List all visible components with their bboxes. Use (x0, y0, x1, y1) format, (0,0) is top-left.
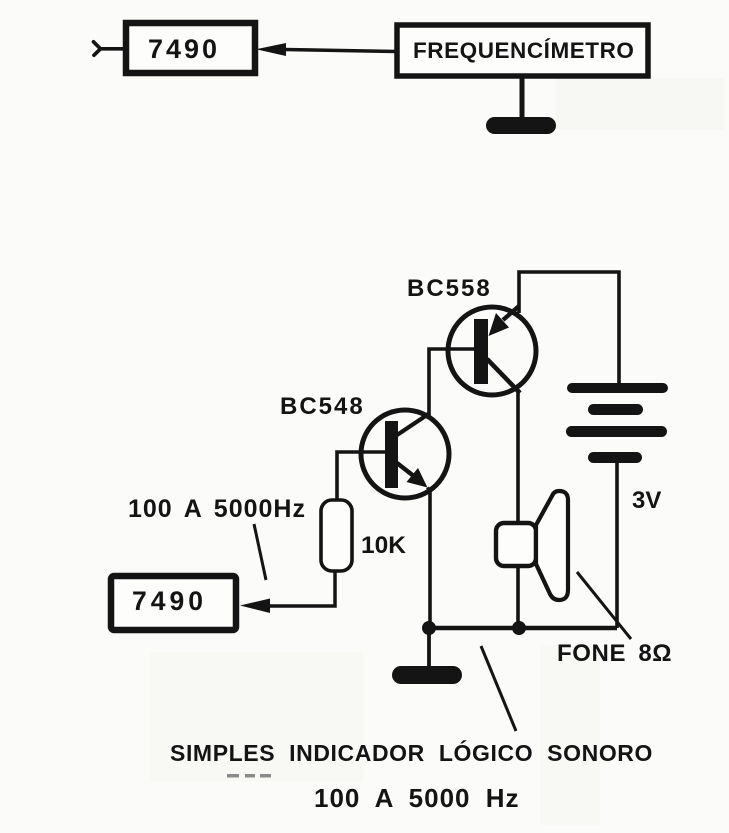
speaker cone (536, 491, 568, 600)
bottom rail (424, 626, 617, 631)
wire top rail to battery (519, 272, 619, 385)
svg-text:BC558: BC558 (407, 275, 492, 302)
svg-text:7490: 7490 (132, 586, 207, 616)
wire BC558 collector down to speaker/rail (516, 390, 520, 627)
junction node B (512, 621, 526, 635)
resistor R1 (321, 500, 352, 571)
svg-text:7490: 7490 (148, 34, 220, 64)
pointer line to title (481, 646, 516, 731)
svg-text:BC548: BC548 (280, 393, 365, 420)
svg-text:FONE 8Ω: FONE 8Ω (557, 640, 672, 667)
speaker FONE body (496, 523, 536, 566)
wire BC548 emitter to bottom rail (428, 488, 431, 629)
ground (bottom) (392, 666, 462, 684)
svg-text:SIMPLES INDICADOR LÓGICO SONOR: SIMPLES INDICADOR LÓGICO SONORO (170, 739, 653, 766)
partial cropped text PAR (227, 774, 271, 778)
transistor Q2 BC558 (PNP) (448, 306, 536, 395)
input connector chevron (94, 42, 124, 55)
battery B1 3V (566, 383, 668, 463)
IC U2 7490 (bottom) (111, 576, 236, 630)
svg-text:10K: 10K (361, 532, 406, 559)
ground (frequencimetro) (486, 117, 556, 134)
wire to ground (427, 628, 431, 670)
wire frequencimetro to 7490 with arrowhead (256, 43, 397, 56)
junction node A (422, 621, 436, 635)
svg-text:100 A 5000Hz: 100 A 5000Hz (128, 495, 306, 523)
IC U1 7490 (top) (126, 23, 255, 73)
svg-text:3V: 3V (632, 487, 661, 514)
wire resistor to 7490 with arrowhead (240, 571, 335, 613)
svg-text:100 A 5000 Hz: 100 A 5000 Hz (314, 783, 520, 813)
pointer line from label to arrow (254, 524, 266, 580)
svg-text:FREQUENCÍMETRO: FREQUENCÍMETRO (413, 38, 634, 63)
wire BC558 base to BC548 collector (429, 349, 474, 414)
wire battery to bottom rail (615, 462, 619, 628)
wire BC548 base to resistor (337, 452, 385, 501)
transistor Q1 BC548 (NPN) (361, 410, 449, 498)
pointer line to FONE label (577, 572, 631, 639)
frequencimetro box (397, 25, 648, 76)
wire frequencimetro to ground (520, 76, 525, 122)
